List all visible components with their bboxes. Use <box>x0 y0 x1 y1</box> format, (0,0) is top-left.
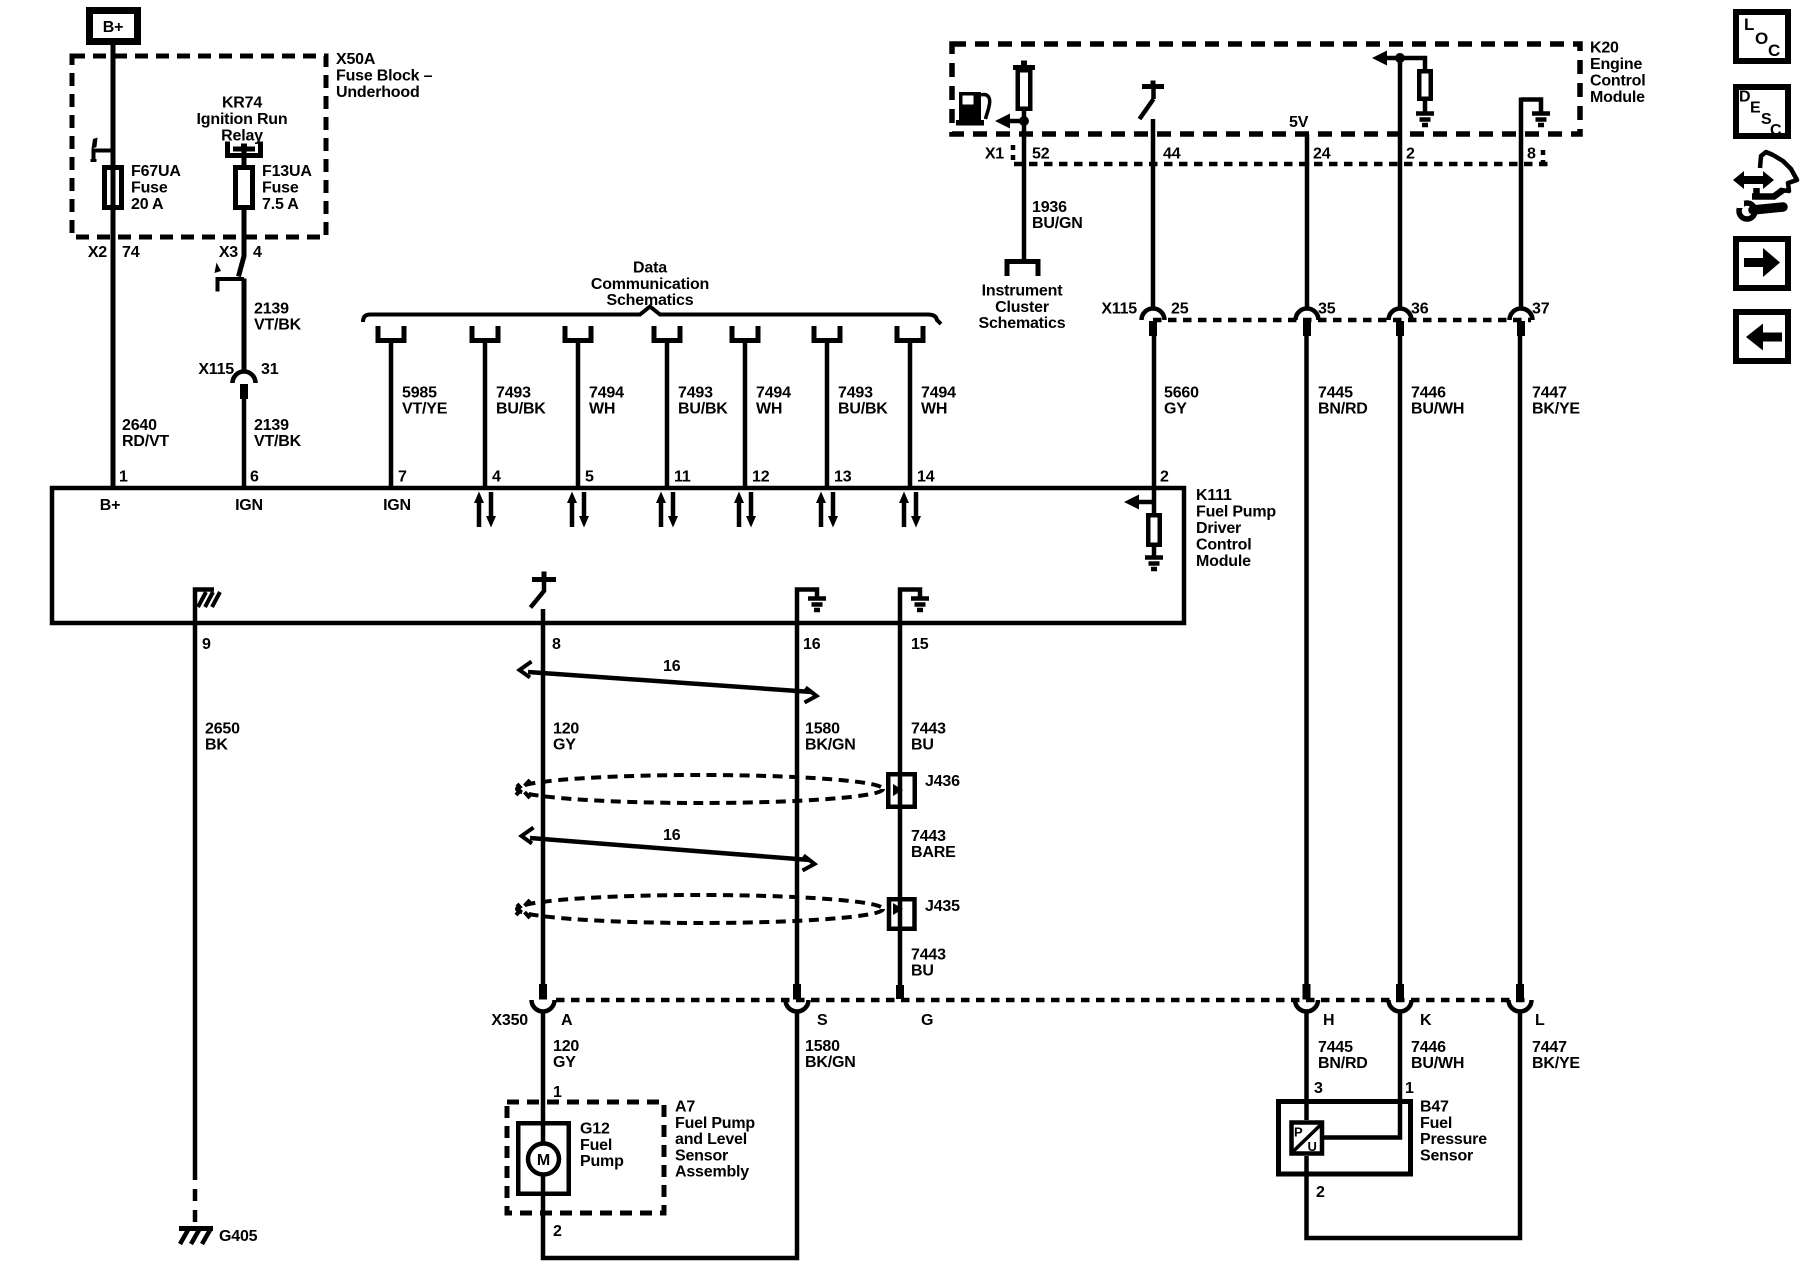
svg-text:J436: J436 <box>925 773 960 790</box>
wire K into sensor signal <box>1324 1011 1400 1138</box>
svg-text:5V: 5V <box>1289 114 1309 131</box>
svg-text:C: C <box>1770 122 1782 139</box>
K111 internal chassis ground at pin 9 <box>195 590 220 626</box>
svg-text:C: C <box>1768 41 1780 60</box>
svg-text:B+: B+ <box>103 19 124 36</box>
connector X350 dashed line <box>556 998 1531 1003</box>
svg-text:X1: X1 <box>985 146 1004 163</box>
svg-text:O: O <box>1755 29 1768 48</box>
svg-text:25: 25 <box>1171 301 1189 318</box>
off-page bracket wire 12 <box>732 326 758 341</box>
wire 7493 BU/BK (pin 4) <box>483 340 488 486</box>
wire 5660 GY X115-25 to K111 pin 2 <box>1152 336 1157 486</box>
connector X2 pin 74 labels <box>88 244 140 261</box>
svg-text:120GY: 120GY <box>553 721 579 754</box>
connector X115 pin 25 <box>1142 309 1165 337</box>
wire 2650 BK K111 pin 9 to G405 <box>193 625 198 1228</box>
fuse F13UA <box>236 163 313 213</box>
svg-text:M: M <box>537 1152 550 1169</box>
wire 7445 BN/RD X115-35 to X350-H <box>1304 336 1309 984</box>
pressure sensor P/U element <box>1292 1123 1323 1155</box>
svg-text:14: 14 <box>917 469 935 486</box>
svg-text:36: 36 <box>1411 301 1429 318</box>
fuel pump icon inside K20 <box>956 92 990 126</box>
svg-text:1: 1 <box>1405 1080 1414 1097</box>
off-page bracket wire 13 <box>814 326 840 341</box>
off-page bracket wire 4 <box>472 326 498 341</box>
data arrows pin 13 <box>816 492 838 528</box>
svg-text:G405: G405 <box>219 1228 258 1245</box>
svg-text:2: 2 <box>1316 1184 1325 1201</box>
connector X115 pin 31 <box>198 361 278 486</box>
svg-text:74: 74 <box>122 244 140 261</box>
svg-text:IGN: IGN <box>235 497 263 514</box>
svg-text:15: 15 <box>911 636 929 653</box>
X1 pin labels <box>985 146 1536 163</box>
svg-text:2: 2 <box>1406 146 1415 163</box>
svg-text:L: L <box>1535 1012 1545 1029</box>
connector X350 pin G stub <box>896 985 904 999</box>
splice J435 <box>889 898 960 929</box>
svg-text:X350: X350 <box>491 1012 528 1029</box>
B+ terminal box <box>90 11 138 42</box>
svg-text:3: 3 <box>1314 1080 1323 1097</box>
wire 5985 VT/YE <box>389 340 394 486</box>
svg-text:IGN: IGN <box>383 497 411 514</box>
DESC icon box <box>1736 87 1788 139</box>
connector X115 pin 35 <box>1296 309 1319 337</box>
internal switch at ECM pin 44 <box>1140 81 1165 120</box>
svg-text:4: 4 <box>492 469 501 486</box>
svg-text:2: 2 <box>1160 469 1169 486</box>
ground G405 <box>179 1228 258 1245</box>
connector X350 pin L <box>1509 984 1532 1012</box>
connector X350 pin A <box>532 984 555 1012</box>
svg-text:13: 13 <box>834 469 852 486</box>
off-page bracket wire 14 <box>897 326 923 341</box>
svg-text:X115: X115 <box>198 361 234 378</box>
connector X350 pin S <box>786 984 809 1012</box>
wire 7493 BU/BK (pin 11) <box>665 340 670 486</box>
wire 7494 WH (pin 5) <box>576 340 581 486</box>
twisted pair arrow 16 lower <box>522 827 815 871</box>
in-line connection marker at X3 wire <box>215 263 245 292</box>
wire 7494 WH (pin 14) <box>908 340 913 486</box>
svg-text:A: A <box>561 1012 573 1029</box>
wire ECM pin 24 to X115-35 <box>1305 134 1310 309</box>
relay KR74 contact symbol <box>228 142 261 168</box>
data arrows pin 4 <box>474 492 496 528</box>
twisted pair arrow 16 upper <box>520 658 817 703</box>
svg-text:9: 9 <box>202 636 211 653</box>
data arrows pin 12 <box>734 492 756 528</box>
X350 pin labels <box>491 1012 1545 1029</box>
fuse block X50A dashed box <box>72 56 326 237</box>
svg-text:16: 16 <box>663 827 681 844</box>
internal 5V supply resistor to ground at ECM pin 2 <box>1372 51 1434 126</box>
wire 7446 BU/WH X115-36 to X350-K <box>1398 336 1403 984</box>
previous page arrow icon <box>1736 312 1788 361</box>
svg-text:31: 31 <box>261 361 279 378</box>
svg-text:U: U <box>1308 1139 1317 1154</box>
off-page bracket wire 5 <box>565 326 591 341</box>
off-page bracket to Instrument Cluster <box>1007 262 1038 277</box>
A7 Fuel Pump and Level Sensor Assembly dashed box <box>507 1102 664 1213</box>
LOC icon box <box>1736 12 1788 61</box>
brace over data communication wires <box>363 307 941 325</box>
fuse F67UA <box>105 163 182 213</box>
svg-text:S: S <box>817 1012 828 1029</box>
svg-text:4: 4 <box>253 244 262 261</box>
svg-text:11: 11 <box>674 469 691 486</box>
svg-text:52: 52 <box>1032 146 1050 163</box>
svg-text:1: 1 <box>119 469 128 486</box>
fuel pump loop wire A to S <box>543 1011 797 1259</box>
connector X1 dotted line <box>1013 145 1549 170</box>
data arrows pin 14 <box>899 492 921 528</box>
svg-text:16: 16 <box>663 658 681 675</box>
svg-text:L: L <box>1744 15 1754 34</box>
svg-text:44: 44 <box>1163 146 1181 163</box>
svg-text:K: K <box>1420 1012 1432 1029</box>
off-page bracket wire 7 <box>378 326 404 341</box>
K111 Fuel Pump Driver Control Module box <box>52 488 1184 623</box>
svg-text:2: 2 <box>553 1223 562 1240</box>
K111 internal switch at pin 8 <box>531 572 557 626</box>
wire ECM pin 44 to X115-25 <box>1151 119 1156 309</box>
next page arrow icon <box>1736 239 1788 288</box>
connector X115 pin 36 <box>1389 309 1412 337</box>
svg-text:1: 1 <box>553 1084 562 1101</box>
wire B+ to fuse F67UA and down to K111 pin 1 <box>111 44 116 486</box>
wire F13UA to X115-31 <box>239 207 245 371</box>
twisted pair loop upper <box>516 775 883 803</box>
fusible link marker at B+ wire <box>91 138 114 161</box>
K111 internal ground at pin 16 <box>797 590 826 626</box>
wire 7443 BU K111 pin 15 to X350-G <box>898 625 903 985</box>
svg-text:G: G <box>921 1012 933 1029</box>
svg-text:H: H <box>1323 1012 1334 1029</box>
wire ECM pin 52 <box>1022 121 1027 260</box>
K111 internal resistor to ground at pin 2 <box>1124 486 1163 569</box>
svg-text:8: 8 <box>552 636 561 653</box>
internal ground at ECM pin 8 <box>1521 100 1550 126</box>
wire 7447 BK/YE X115-37 to X350-L <box>1518 336 1523 984</box>
wire 1580 BK/GN K111 pin 16 to X350-S <box>795 625 800 984</box>
connector X350 pin H <box>1295 984 1318 1012</box>
svg-text:35: 35 <box>1318 301 1336 318</box>
svg-text:E: E <box>1750 100 1761 117</box>
svg-text:7: 7 <box>398 469 407 486</box>
svg-text:D: D <box>1739 89 1750 106</box>
sensor ground loop wire pin 2 to L <box>1307 1011 1521 1239</box>
off-page bracket wire 11 <box>654 326 680 341</box>
svg-text:X115: X115 <box>1101 301 1137 318</box>
svg-text:5: 5 <box>585 469 594 486</box>
svg-text:6: 6 <box>250 469 259 486</box>
wire 120 GY K111 pin 8 to X350-A <box>541 625 546 984</box>
pointing hand with arrows icon <box>1733 152 1797 219</box>
wire ECM pin 2 to X115-36 <box>1398 58 1403 309</box>
svg-text:P: P <box>1294 1125 1303 1140</box>
K111 internal ground at pin 15 <box>900 590 929 626</box>
data arrows pin 11 <box>656 492 678 528</box>
connector X115 pin 37 <box>1510 309 1533 337</box>
X115 right pin labels <box>1101 301 1549 318</box>
svg-text:37: 37 <box>1532 301 1550 318</box>
twisted pair loop lower <box>516 895 883 923</box>
B47 Fuel Pressure Sensor box <box>1279 1102 1411 1175</box>
svg-text:B+: B+ <box>100 497 121 514</box>
svg-text:J435: J435 <box>925 898 960 915</box>
connector X350 pin K <box>1389 984 1412 1012</box>
svg-text:X2: X2 <box>88 244 107 261</box>
data arrows pin 5 <box>567 492 589 528</box>
G12 fuel pump motor <box>528 1144 559 1175</box>
internal supply with resistor at ECM pin 52 <box>995 61 1035 129</box>
K20 Engine Control Module dashed box <box>952 44 1580 134</box>
wire 7493 BU/BK (pin 13) <box>825 340 830 486</box>
svg-text:24: 24 <box>1313 146 1331 163</box>
G12 Fuel Pump box <box>518 1123 569 1194</box>
svg-text:16: 16 <box>803 636 821 653</box>
wire H into pressure sensor element <box>1304 1011 1309 1121</box>
splice J436 <box>888 773 960 807</box>
wire 7494 WH (pin 12) <box>743 340 748 486</box>
svg-text:X3: X3 <box>219 244 238 261</box>
svg-text:8: 8 <box>1527 146 1536 163</box>
svg-text:120GY: 120GY <box>553 1038 579 1071</box>
connector X115 dashed line (right) <box>1153 318 1531 323</box>
svg-text:12: 12 <box>752 469 770 486</box>
wire ECM pin 8 to X115-37 <box>1519 98 1524 310</box>
connector X3 pin 4 labels <box>219 244 262 261</box>
